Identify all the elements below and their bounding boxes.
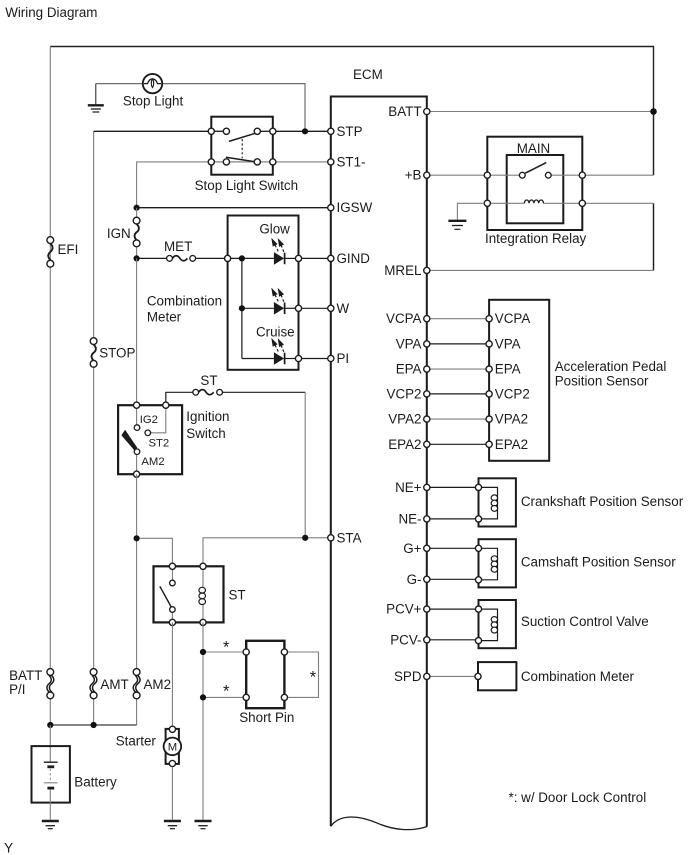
svg-text:BATT: BATT	[9, 668, 42, 683]
svg-text:Wiring Diagram: Wiring Diagram	[5, 5, 97, 20]
svg-text:GIND: GIND	[337, 251, 371, 266]
fuse MET	[167, 256, 196, 262]
svg-text:VCP2: VCP2	[387, 386, 422, 401]
wire PCV-	[427, 639, 479, 641]
svg-text:*: *	[310, 669, 317, 687]
svg-text:IGN: IGN	[107, 226, 131, 241]
svg-text:VPA: VPA	[396, 336, 422, 351]
svg-text:MREL: MREL	[384, 263, 421, 278]
svg-text:Battery: Battery	[74, 775, 117, 790]
wire BATT	[427, 111, 654, 113]
wire right-side +B feed	[653, 112, 655, 176]
wire short pin top	[203, 651, 246, 653]
wire MET row	[137, 257, 167, 259]
svg-text:Position Sensor: Position Sensor	[555, 374, 649, 389]
node glow anode	[239, 255, 245, 261]
svg-text:Ignition: Ignition	[186, 409, 229, 424]
svg-text:*: *	[223, 683, 230, 701]
svg-text:PCV-: PCV-	[390, 632, 421, 647]
wire meter internal bus	[228, 258, 242, 358]
wire MREL return vertical	[653, 203, 655, 270]
svg-text:Stop Light: Stop Light	[123, 93, 184, 108]
node bus AMT	[91, 722, 97, 728]
svg-text:MET: MET	[164, 239, 192, 254]
node w anode	[239, 305, 245, 311]
svg-text:*: w/ Door Lock Control: *: w/ Door Lock Control	[509, 790, 647, 805]
svg-text:NE-: NE-	[398, 511, 421, 526]
wire VPA2	[427, 418, 489, 420]
svg-text:Starter: Starter	[116, 734, 157, 749]
ECM box	[331, 97, 427, 830]
wire STOP branch vertical	[93, 131, 95, 337]
ground integration relay	[448, 221, 466, 230]
wire IGSW	[137, 207, 331, 209]
wire ST fuse row	[166, 392, 193, 405]
svg-text:Acceleration Pedal: Acceleration Pedal	[555, 359, 667, 374]
wire W	[299, 307, 331, 309]
wire starter feed	[171, 622, 173, 726]
wire EFI supply left vertical	[49, 244, 51, 669]
fuse IGN	[133, 217, 140, 247]
wire starter to ground	[171, 767, 173, 820]
svg-text:+B: +B	[405, 168, 422, 183]
wire +B left	[427, 174, 488, 176]
wire NE+	[427, 486, 479, 488]
wire VCPA	[427, 318, 489, 320]
svg-text:SPD: SPD	[394, 669, 422, 684]
svg-text:Integration Relay: Integration Relay	[485, 231, 587, 246]
motor Starter	[164, 726, 182, 766]
node BATT junction	[650, 108, 657, 115]
svg-text:VPA2: VPA2	[495, 412, 528, 427]
svg-text:G-: G-	[407, 572, 422, 587]
svg-text:MAIN: MAIN	[517, 141, 550, 156]
svg-text:PCV+: PCV+	[386, 602, 422, 617]
wire EPA2	[427, 443, 489, 445]
svg-text:ST1-: ST1-	[337, 154, 366, 169]
svg-text:EPA2: EPA2	[495, 437, 528, 452]
svg-text:ECM: ECM	[353, 67, 383, 82]
ECM pins right	[424, 108, 430, 679]
svg-text:W: W	[337, 301, 350, 316]
svg-text:ST2: ST2	[149, 438, 170, 450]
wire relay coil right	[582, 202, 653, 204]
svg-text:STP: STP	[337, 124, 363, 139]
svg-text:Short Pin: Short Pin	[239, 710, 294, 725]
svg-text:Combination Meter: Combination Meter	[521, 669, 635, 684]
node MET tap	[134, 255, 140, 261]
sensor Crankshaft Position Sensor	[475, 478, 516, 526]
wire IGN vertical	[136, 208, 138, 218]
fuse AMT	[90, 669, 97, 699]
wire PI	[299, 358, 331, 360]
wire +B right	[582, 174, 653, 176]
ground stop light	[88, 84, 104, 112]
wire STP	[94, 130, 212, 132]
svg-text:BATT: BATT	[388, 104, 421, 119]
svg-text:P/I: P/I	[9, 682, 25, 697]
label ECM pin names left	[337, 124, 373, 546]
fuse AM2	[133, 669, 140, 699]
label ECM pin names right	[384, 104, 422, 684]
wire G-	[427, 578, 479, 580]
svg-text:VCPA: VCPA	[495, 311, 531, 326]
LED Glow	[242, 240, 299, 265]
wire SPD	[427, 675, 478, 677]
svg-text:EPA: EPA	[396, 362, 422, 377]
ECM pins left	[328, 128, 334, 541]
node IGSW tap	[134, 205, 140, 211]
svg-text:Suction Control Valve: Suction Control Valve	[521, 614, 649, 629]
wire x136 ST1- to ignition switch	[136, 258, 138, 405]
relay ST	[154, 563, 224, 625]
relay Integration Relay	[484, 137, 585, 230]
svg-text:Meter: Meter	[147, 309, 182, 324]
switch Stop Light Switch	[208, 117, 276, 175]
sensor Acceleration Pedal Position Sensor	[486, 300, 549, 461]
svg-text:Y: Y	[4, 840, 13, 855]
svg-text:STA: STA	[337, 530, 362, 545]
ground ST coil	[195, 821, 212, 829]
wire GIND	[299, 257, 331, 259]
svg-text:EFI: EFI	[58, 242, 79, 257]
node STA/ST-fuse junction	[302, 535, 308, 541]
ground battery	[42, 821, 59, 829]
wire stop light feed	[96, 83, 143, 85]
LED Cruise/PI	[242, 340, 299, 365]
svg-text:STOP: STOP	[99, 346, 135, 361]
svg-text:AM2: AM2	[144, 677, 172, 692]
svg-text:Switch: Switch	[186, 426, 225, 441]
svg-text:VPA2: VPA2	[388, 412, 421, 427]
pin meter GIND	[295, 255, 301, 261]
pin meter W	[295, 305, 301, 311]
wire NE-	[427, 518, 479, 520]
LED W	[242, 289, 299, 314]
fuse EFI	[47, 237, 54, 267]
node stop-light/STP junction	[302, 128, 308, 134]
svg-text:ST: ST	[200, 373, 217, 388]
wire ST1-	[211, 161, 330, 163]
svg-text:PI: PI	[337, 351, 350, 366]
pin meter left	[225, 255, 231, 261]
svg-text:EPA2: EPA2	[388, 437, 421, 452]
label sensor pins	[495, 311, 531, 452]
wire short pin bottom	[203, 696, 246, 698]
svg-text:ST: ST	[229, 588, 246, 603]
svg-text:Cruise: Cruise	[256, 325, 295, 340]
fuse ST	[193, 389, 223, 395]
wire relay ground	[457, 203, 484, 219]
fuse BATT P/I	[47, 669, 54, 699]
wire short pin right loop	[284, 652, 318, 697]
lamp Stop Light	[143, 74, 162, 93]
svg-text:M: M	[168, 742, 177, 754]
wire STA row	[137, 538, 173, 566]
node short pin top junction	[200, 649, 206, 655]
node bus battery	[47, 722, 53, 728]
svg-text:Combination: Combination	[147, 294, 222, 309]
svg-text:VCPA: VCPA	[386, 311, 422, 326]
svg-text:*: *	[223, 639, 230, 657]
switch Ignition Switch	[118, 402, 182, 477]
node short pin bottom junction	[200, 694, 206, 700]
wire PCV+	[427, 608, 479, 610]
wire G+	[427, 547, 479, 549]
wire EPA	[427, 368, 489, 370]
svg-text:VPA: VPA	[495, 336, 521, 351]
connector Short Pin	[243, 641, 287, 708]
svg-text:Glow: Glow	[259, 222, 290, 237]
meter Combination Meter box	[228, 216, 299, 370]
wire VPA	[427, 343, 489, 345]
meter Combination Meter right box	[475, 662, 517, 690]
wire ST coil to ground	[202, 622, 204, 819]
svg-text:VCP2: VCP2	[495, 386, 530, 401]
svg-text:AM2: AM2	[141, 456, 164, 468]
svg-text:Camshaft Position Sensor: Camshaft Position Sensor	[521, 555, 676, 570]
svg-text:Crankshaft Position Sensor: Crankshaft Position Sensor	[521, 494, 684, 509]
battery Battery	[32, 725, 70, 820]
wire frame top	[50, 47, 653, 112]
sensor Camshaft Position Sensor	[475, 539, 516, 587]
svg-text:AMT: AMT	[100, 677, 128, 692]
wire AM2 vertical	[136, 474, 138, 668]
pin meter PI	[295, 355, 301, 361]
svg-text:G+: G+	[403, 541, 421, 556]
wire battery bus	[50, 724, 136, 726]
fuse STOP	[90, 338, 97, 367]
ground starter	[164, 821, 181, 829]
wire VCP2	[427, 393, 489, 395]
svg-text:NE+: NE+	[395, 480, 422, 495]
node STA/AM2 junction	[134, 535, 140, 541]
svg-text:Stop Light Switch: Stop Light Switch	[195, 178, 298, 193]
svg-text:EPA: EPA	[495, 362, 521, 377]
svg-text:IGSW: IGSW	[337, 200, 373, 215]
valve Suction Control Valve	[475, 600, 516, 648]
wire MREL	[427, 269, 654, 271]
svg-text:IG2: IG2	[140, 414, 158, 426]
